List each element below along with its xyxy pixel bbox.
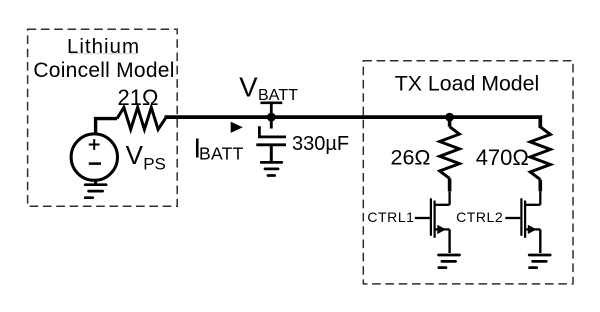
- label: TX Load Model: [395, 71, 539, 95]
- ground (capacitor): [261, 162, 282, 175]
- node A junction dot: [445, 113, 454, 122]
- box: TX Load Model: [363, 61, 573, 284]
- svg-text:V: V: [126, 140, 144, 170]
- svg-text:TX Load Model: TX Load Model: [395, 71, 539, 95]
- svg-text:BATT: BATT: [258, 87, 298, 104]
- svg-text:CTRL2: CTRL2: [456, 209, 503, 225]
- capacitor C1 330uF: [256, 126, 286, 161]
- svg-text:Lithium: Lithium: [67, 35, 140, 58]
- label: Lithium Coincell Model: [33, 35, 174, 82]
- transistor Q2: [505, 198, 540, 253]
- current arrow IBATT: [231, 122, 243, 133]
- label CTRL2: [456, 209, 503, 225]
- label VPS: [126, 140, 166, 173]
- wire node VBATT to node A: [271, 115, 449, 119]
- svg-text:CTRL1: CTRL1: [367, 209, 414, 225]
- label 330uF: [292, 133, 349, 155]
- svg-text:V: V: [239, 71, 258, 102]
- node VBATT: [260, 103, 282, 122]
- capacitor C1 top lead: [270, 117, 273, 128]
- resistor R3 470ohm: [530, 127, 550, 205]
- svg-text:Coincell Model: Coincell Model: [33, 59, 174, 82]
- box: Lithium Coincell Model: [28, 29, 178, 206]
- label CTRL1: [367, 209, 414, 225]
- ground (source): [85, 182, 106, 198]
- svg-text:470Ω: 470Ω: [476, 145, 529, 170]
- svg-text:PS: PS: [143, 154, 166, 173]
- svg-text:BATT: BATT: [199, 143, 244, 163]
- label 21ohm: [118, 85, 159, 110]
- wire node A to resistor R3 corner: [450, 117, 541, 128]
- resistor R2 26ohm: [440, 117, 460, 205]
- voltage source VPS: [71, 134, 117, 180]
- label 470ohm: [476, 145, 529, 170]
- label IBATT: [193, 133, 243, 164]
- svg-text:21Ω: 21Ω: [118, 85, 159, 110]
- svg-text:26Ω: 26Ω: [391, 146, 431, 170]
- wire resistor R1 to node VBATT: [165, 115, 272, 119]
- label 26ohm: [391, 146, 431, 170]
- svg-text:330µF: 330µF: [292, 133, 349, 155]
- ground (Q1): [439, 255, 460, 268]
- transistor Q1: [415, 198, 450, 253]
- wire source to resistor R1: [96, 119, 117, 133]
- label VBATT: [239, 71, 298, 104]
- ground (Q2): [529, 255, 550, 268]
- resistor R1 21ohm: [117, 107, 166, 129]
